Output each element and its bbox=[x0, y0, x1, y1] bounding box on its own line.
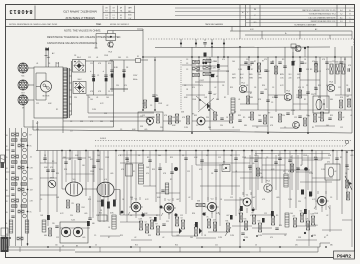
svg-text:.047: .047 bbox=[252, 197, 255, 199]
svg-text:220: 220 bbox=[160, 127, 163, 129]
svg-text:C5: C5 bbox=[283, 171, 285, 173]
svg-text:.01: .01 bbox=[326, 235, 328, 237]
svg-text:R24: R24 bbox=[175, 245, 178, 247]
svg-text:TR-8: TR-8 bbox=[108, 52, 112, 54]
svg-text:.005: .005 bbox=[350, 155, 353, 157]
svg-text:C12: C12 bbox=[218, 157, 221, 159]
svg-text:R31: R31 bbox=[330, 115, 333, 117]
svg-text:P94R2: P94R2 bbox=[337, 253, 351, 258]
svg-text:470: 470 bbox=[199, 169, 202, 171]
svg-text:.01: .01 bbox=[238, 99, 240, 101]
svg-text:C5: C5 bbox=[306, 85, 308, 87]
svg-text:470: 470 bbox=[192, 87, 195, 89]
svg-text:CAPACITANCE VALUES IN MICRO: CAPACITANCE VALUES IN MICROFARADS. bbox=[47, 42, 98, 45]
svg-text:C3: C3 bbox=[255, 245, 257, 247]
svg-text:2.2M: 2.2M bbox=[288, 199, 292, 201]
svg-text:470: 470 bbox=[298, 87, 301, 89]
svg-text:680: 680 bbox=[250, 97, 253, 99]
svg-text:.005: .005 bbox=[144, 129, 147, 131]
svg-text:C12: C12 bbox=[142, 115, 145, 117]
svg-text:R31: R31 bbox=[238, 115, 241, 117]
svg-text:C3: C3 bbox=[186, 59, 188, 61]
svg-text:100: 100 bbox=[106, 97, 109, 99]
svg-text:680: 680 bbox=[244, 125, 247, 127]
svg-text:TR-1: TR-1 bbox=[241, 83, 245, 85]
svg-text:R7: R7 bbox=[254, 61, 256, 63]
svg-text:560: 560 bbox=[148, 125, 151, 127]
svg-text:C21: C21 bbox=[36, 103, 39, 105]
svg-text:.02: .02 bbox=[326, 215, 328, 217]
svg-text:680: 680 bbox=[44, 235, 47, 237]
svg-text:R15: R15 bbox=[135, 245, 138, 247]
svg-text:680: 680 bbox=[92, 223, 95, 225]
svg-text:R7: R7 bbox=[223, 169, 225, 171]
svg-text:.005: .005 bbox=[254, 155, 257, 157]
svg-text:470: 470 bbox=[222, 59, 225, 61]
svg-text:C12: C12 bbox=[130, 197, 133, 199]
svg-text:560: 560 bbox=[318, 117, 321, 119]
svg-text:C5: C5 bbox=[326, 85, 328, 87]
svg-text:R7: R7 bbox=[324, 237, 326, 239]
svg-text:C3: C3 bbox=[108, 91, 110, 93]
svg-text:R31: R31 bbox=[318, 97, 321, 99]
svg-text:220: 220 bbox=[293, 216, 296, 218]
svg-text:C5: C5 bbox=[126, 57, 128, 59]
svg-text:.02: .02 bbox=[166, 105, 168, 107]
svg-text:560: 560 bbox=[306, 115, 309, 117]
svg-text:470: 470 bbox=[270, 237, 273, 239]
svg-text:R1: R1 bbox=[304, 99, 306, 101]
svg-text:R1: R1 bbox=[204, 215, 206, 217]
svg-text:C5: C5 bbox=[290, 157, 292, 159]
svg-text:100: 100 bbox=[258, 115, 261, 117]
svg-text:.01: .01 bbox=[96, 57, 98, 59]
svg-text:.02: .02 bbox=[214, 87, 216, 89]
svg-text:.02: .02 bbox=[30, 156, 32, 158]
svg-text:LOOP: LOOP bbox=[199, 80, 205, 82]
svg-text:C12: C12 bbox=[230, 197, 233, 199]
svg-text:100: 100 bbox=[55, 245, 58, 247]
svg-text:220: 220 bbox=[116, 85, 119, 87]
svg-text:R15: R15 bbox=[230, 87, 233, 89]
svg-text:.01: .01 bbox=[96, 97, 98, 99]
svg-text:C12: C12 bbox=[340, 127, 343, 129]
svg-text:R31: R31 bbox=[194, 115, 197, 117]
svg-text:R9: R9 bbox=[76, 246, 78, 248]
svg-text:470: 470 bbox=[36, 129, 39, 131]
svg-text:470: 470 bbox=[124, 85, 127, 87]
svg-text:100: 100 bbox=[252, 163, 255, 165]
svg-text:470: 470 bbox=[146, 173, 149, 175]
svg-text:R1: R1 bbox=[120, 213, 122, 215]
svg-text:C8: C8 bbox=[211, 173, 213, 175]
svg-text:SW-2: SW-2 bbox=[50, 178, 54, 180]
svg-text:R7: R7 bbox=[278, 155, 280, 157]
svg-text:C5: C5 bbox=[95, 245, 97, 247]
svg-text:C3: C3 bbox=[302, 87, 304, 89]
svg-text:V-2: V-2 bbox=[168, 200, 171, 202]
svg-text:C3: C3 bbox=[40, 199, 42, 201]
svg-text:560: 560 bbox=[326, 125, 329, 127]
svg-text:840813: 840813 bbox=[9, 8, 33, 14]
svg-text:220: 220 bbox=[52, 223, 55, 225]
svg-text:680: 680 bbox=[336, 62, 339, 64]
svg-text:C3: C3 bbox=[272, 87, 274, 89]
svg-text:TR-5: TR-5 bbox=[266, 181, 270, 183]
svg-text:.047: .047 bbox=[176, 199, 179, 201]
svg-text:100: 100 bbox=[88, 157, 91, 159]
svg-text:R7: R7 bbox=[108, 237, 110, 239]
svg-text:R15: R15 bbox=[152, 169, 155, 171]
svg-text:R7: R7 bbox=[250, 93, 252, 95]
svg-text:C12: C12 bbox=[180, 215, 183, 217]
svg-text:2.2M: 2.2M bbox=[244, 237, 248, 239]
svg-text:C5: C5 bbox=[284, 127, 286, 129]
svg-text:.047: .047 bbox=[260, 177, 263, 179]
svg-text:TR-3: TR-3 bbox=[329, 82, 333, 84]
svg-text:R15: R15 bbox=[88, 199, 91, 201]
svg-text:C8: C8 bbox=[108, 227, 110, 229]
svg-text:'65: '65 bbox=[120, 17, 122, 19]
svg-text:C21: C21 bbox=[187, 171, 190, 173]
svg-text:MODEL 2 TAPE W-R: MODEL 2 TAPE W-R bbox=[65, 16, 95, 20]
svg-text:R24: R24 bbox=[314, 157, 317, 159]
svg-text:.01: .01 bbox=[36, 63, 38, 65]
svg-text:MAGNETIC JAPAN LTD: MAGNETIC JAPAN LTD bbox=[63, 10, 97, 14]
svg-text:R9: R9 bbox=[147, 157, 149, 159]
svg-text:.047: .047 bbox=[30, 189, 33, 191]
svg-text:470: 470 bbox=[312, 61, 315, 63]
svg-text:.02: .02 bbox=[162, 237, 164, 239]
svg-text:C8: C8 bbox=[246, 85, 248, 87]
svg-text:C8: C8 bbox=[181, 218, 183, 220]
svg-text:680: 680 bbox=[248, 117, 251, 119]
svg-text:9-3: 9-3 bbox=[340, 21, 343, 23]
svg-text:R24: R24 bbox=[82, 207, 85, 209]
svg-text:680: 680 bbox=[216, 99, 219, 101]
svg-text:2.2M: 2.2M bbox=[99, 169, 103, 171]
svg-text:R15: R15 bbox=[120, 235, 123, 237]
svg-text:560: 560 bbox=[158, 155, 161, 157]
svg-text:C5: C5 bbox=[196, 125, 198, 127]
svg-text:C8: C8 bbox=[74, 55, 76, 57]
svg-text:560: 560 bbox=[118, 57, 121, 59]
svg-text:C5: C5 bbox=[94, 235, 96, 237]
svg-text:R7: R7 bbox=[234, 112, 236, 114]
svg-text:C8: C8 bbox=[88, 97, 90, 99]
svg-text:R9: R9 bbox=[150, 218, 152, 220]
svg-text:.047: .047 bbox=[346, 96, 349, 98]
svg-text:MODEL NO SERIES 2: MODEL NO SERIES 2 bbox=[110, 24, 129, 26]
svg-text:C8: C8 bbox=[70, 121, 72, 123]
svg-text:R15: R15 bbox=[244, 219, 247, 221]
svg-text:NOTE: THE VALUES IN OHMS.: NOTE: THE VALUES IN OHMS. bbox=[64, 29, 101, 33]
svg-text:C21: C21 bbox=[56, 63, 59, 65]
svg-text:.01: .01 bbox=[194, 61, 196, 63]
svg-text:C3: C3 bbox=[62, 246, 64, 248]
svg-text:.02: .02 bbox=[342, 117, 344, 119]
svg-text:B+: B+ bbox=[285, 33, 287, 35]
svg-text:.005: .005 bbox=[176, 235, 179, 237]
svg-text:7-2: 7-2 bbox=[340, 14, 343, 16]
svg-text:SP: SP bbox=[22, 107, 24, 109]
svg-text:.01: .01 bbox=[235, 171, 237, 173]
svg-text:C8: C8 bbox=[347, 169, 349, 171]
svg-text:C21: C21 bbox=[264, 213, 267, 215]
svg-text:R15: R15 bbox=[258, 221, 261, 223]
svg-text:R9: R9 bbox=[282, 59, 284, 61]
svg-text:EXT: EXT bbox=[21, 92, 24, 94]
svg-text:C3: C3 bbox=[120, 129, 122, 131]
svg-text:R9: R9 bbox=[268, 113, 270, 115]
svg-text:6-4: 6-4 bbox=[340, 10, 343, 12]
svg-text:C21: C21 bbox=[126, 159, 129, 161]
svg-text:.01: .01 bbox=[218, 69, 220, 71]
svg-text:60Hz: 60Hz bbox=[133, 79, 137, 81]
svg-text:R1: R1 bbox=[56, 109, 58, 111]
svg-text:R24: R24 bbox=[279, 225, 282, 227]
svg-text:2.2M: 2.2M bbox=[184, 127, 188, 129]
svg-text:R7: R7 bbox=[36, 123, 38, 125]
svg-text:T-201: T-201 bbox=[71, 220, 75, 222]
svg-text:R24: R24 bbox=[99, 213, 102, 215]
svg-text:V-6: V-6 bbox=[104, 179, 107, 181]
svg-text:2.2M: 2.2M bbox=[258, 235, 262, 237]
svg-text:C3: C3 bbox=[70, 131, 72, 133]
svg-text:C21: C21 bbox=[90, 63, 93, 65]
svg-text:MOTOR: MOTOR bbox=[43, 96, 50, 98]
svg-text:TRIO: TRIO bbox=[96, 24, 102, 26]
svg-text:SE-2: SE-2 bbox=[78, 79, 82, 81]
svg-text:.02: .02 bbox=[142, 103, 144, 105]
svg-text:R1: R1 bbox=[224, 97, 226, 99]
svg-text:R9: R9 bbox=[156, 215, 158, 217]
svg-text:SCHEMATIC DIAGRAM: SCHEMATIC DIAGRAM bbox=[294, 23, 316, 26]
svg-text:.02: .02 bbox=[334, 171, 336, 173]
svg-text:C1: C1 bbox=[97, 75, 99, 77]
svg-text:C8: C8 bbox=[284, 235, 286, 237]
svg-text:220: 220 bbox=[206, 117, 209, 119]
svg-text:8-2: 8-2 bbox=[120, 15, 122, 17]
svg-text:470: 470 bbox=[327, 162, 330, 164]
svg-text:2.2M: 2.2M bbox=[230, 235, 234, 237]
svg-text:220: 220 bbox=[96, 215, 99, 217]
svg-text:C8: C8 bbox=[300, 165, 302, 167]
svg-text:R31: R31 bbox=[318, 85, 321, 87]
svg-text:.02: .02 bbox=[196, 71, 198, 73]
svg-text:.005: .005 bbox=[84, 213, 87, 215]
svg-text:100: 100 bbox=[97, 155, 100, 157]
svg-text:BL: BL bbox=[6, 223, 8, 225]
svg-text:C8: C8 bbox=[256, 127, 258, 129]
svg-text:C114 .005 CHANGED SEE NOTE: C114 .005 CHANGED SEE NOTE bbox=[308, 16, 336, 19]
svg-text:470: 470 bbox=[295, 245, 298, 247]
svg-text:2.2M: 2.2M bbox=[97, 201, 101, 203]
svg-text:2.2M: 2.2M bbox=[309, 173, 313, 175]
svg-text:220: 220 bbox=[311, 94, 314, 96]
svg-text:C8: C8 bbox=[48, 63, 50, 65]
svg-text:C21: C21 bbox=[166, 221, 169, 223]
svg-text:VOLTAGE READINGS ADD TR-4: VOLTAGE READINGS ADD TR-4 bbox=[309, 13, 336, 16]
svg-text:2.2M: 2.2M bbox=[218, 237, 222, 239]
svg-text:470: 470 bbox=[264, 59, 267, 61]
svg-text:R7: R7 bbox=[251, 69, 253, 71]
svg-text:C8: C8 bbox=[222, 85, 224, 87]
svg-text:R7: R7 bbox=[156, 224, 158, 226]
svg-text:R24: R24 bbox=[340, 97, 343, 99]
svg-text:C21: C21 bbox=[338, 71, 341, 73]
svg-text:560: 560 bbox=[300, 211, 303, 213]
svg-text:R24: R24 bbox=[30, 178, 33, 180]
svg-text:C21: C21 bbox=[226, 71, 229, 73]
svg-text:2.2M: 2.2M bbox=[291, 110, 295, 112]
svg-text:.005: .005 bbox=[110, 173, 113, 175]
svg-text:WHT: WHT bbox=[232, 78, 236, 80]
svg-text:R1: R1 bbox=[272, 61, 274, 63]
svg-text:R15: R15 bbox=[170, 157, 173, 159]
svg-text:F1: F1 bbox=[137, 56, 139, 58]
svg-text:220: 220 bbox=[220, 125, 223, 127]
svg-text:.047: .047 bbox=[213, 94, 216, 96]
svg-text:560: 560 bbox=[190, 237, 193, 239]
svg-text:R1: R1 bbox=[344, 59, 346, 61]
svg-text:.047: .047 bbox=[213, 220, 216, 222]
svg-text:.005: .005 bbox=[264, 89, 267, 91]
svg-text:C8: C8 bbox=[138, 155, 140, 157]
svg-text:R24: R24 bbox=[64, 169, 67, 171]
svg-text:R31: R31 bbox=[226, 221, 229, 223]
svg-text:7-1: 7-1 bbox=[112, 15, 114, 17]
svg-text:680: 680 bbox=[330, 245, 333, 247]
svg-text:R1: R1 bbox=[133, 171, 135, 173]
svg-text:.005: .005 bbox=[276, 197, 279, 199]
svg-text:220: 220 bbox=[297, 169, 300, 171]
svg-text:680: 680 bbox=[152, 117, 155, 119]
svg-text:C3: C3 bbox=[150, 105, 152, 107]
svg-text:SHIELD: SHIELD bbox=[100, 138, 107, 140]
svg-text:6-3: 6-3 bbox=[105, 15, 107, 17]
svg-text:C3: C3 bbox=[145, 222, 147, 224]
svg-text:RESISTOR ADDED R118 1.2K: RESISTOR ADDED R118 1.2K bbox=[311, 20, 337, 23]
svg-text:'64: '64 bbox=[112, 17, 114, 19]
svg-text:C12: C12 bbox=[88, 57, 91, 59]
svg-text:220: 220 bbox=[70, 215, 73, 217]
svg-text:NOTES: RESISTANCE IN OHMS K=: NOTES: RESISTANCE IN OHMS K=1000 CAP. IN… bbox=[9, 23, 58, 26]
svg-text:C8: C8 bbox=[346, 85, 348, 87]
svg-text:R24: R24 bbox=[259, 173, 262, 175]
svg-text:.005: .005 bbox=[82, 237, 85, 239]
svg-text:'64: '64 bbox=[105, 17, 107, 19]
svg-text:2.2M: 2.2M bbox=[92, 109, 96, 111]
svg-text:R15: R15 bbox=[56, 173, 59, 175]
svg-text:680: 680 bbox=[330, 99, 333, 101]
svg-text:2.2M: 2.2M bbox=[238, 69, 242, 71]
svg-text:C21: C21 bbox=[246, 59, 249, 61]
svg-text:220: 220 bbox=[282, 115, 285, 117]
svg-text:C8: C8 bbox=[184, 85, 186, 87]
svg-text:560: 560 bbox=[208, 127, 211, 129]
svg-text:R7: R7 bbox=[30, 134, 32, 136]
svg-text:.02: .02 bbox=[188, 197, 190, 199]
svg-text:560: 560 bbox=[100, 121, 103, 123]
svg-text:R24: R24 bbox=[192, 213, 195, 215]
svg-text:PARTS NO CHANGED R201 330 TO: PARTS NO CHANGED R201 330 TO 470 bbox=[302, 9, 335, 12]
svg-text:R9: R9 bbox=[310, 69, 312, 71]
svg-text:V-3: V-3 bbox=[211, 199, 214, 201]
svg-text:.047: .047 bbox=[68, 159, 71, 161]
svg-text:.005: .005 bbox=[126, 161, 129, 163]
svg-text:1: 1 bbox=[247, 12, 248, 14]
svg-text:R9: R9 bbox=[276, 215, 278, 217]
svg-text:TAPE MECHANISM: TAPE MECHANISM bbox=[205, 23, 223, 26]
svg-text:R9: R9 bbox=[52, 161, 54, 163]
svg-text:R1: R1 bbox=[298, 125, 300, 127]
svg-text:C21: C21 bbox=[215, 245, 218, 247]
svg-text:R31: R31 bbox=[90, 159, 93, 161]
svg-text:470: 470 bbox=[200, 85, 203, 87]
svg-text:.01: .01 bbox=[232, 127, 234, 129]
svg-text:220: 220 bbox=[289, 78, 292, 80]
svg-text:470: 470 bbox=[50, 167, 53, 169]
svg-text:115V: 115V bbox=[133, 75, 138, 77]
svg-text:C8: C8 bbox=[130, 215, 132, 217]
svg-text:TR-2: TR-2 bbox=[286, 91, 290, 93]
svg-text:C3: C3 bbox=[266, 157, 268, 159]
svg-text:V-4: V-4 bbox=[246, 195, 249, 197]
svg-text:YEL: YEL bbox=[258, 74, 261, 76]
svg-text:C12: C12 bbox=[338, 87, 341, 89]
svg-text:R31: R31 bbox=[148, 235, 151, 237]
svg-text:R9: R9 bbox=[72, 203, 74, 205]
svg-text:100: 100 bbox=[290, 213, 293, 215]
svg-text:.02: .02 bbox=[134, 237, 136, 239]
svg-text:100: 100 bbox=[90, 99, 93, 101]
svg-text:.01: .01 bbox=[350, 115, 352, 117]
svg-text:220: 220 bbox=[74, 97, 77, 99]
svg-text:SE-1: SE-1 bbox=[77, 57, 81, 59]
svg-text:R9: R9 bbox=[340, 157, 342, 159]
svg-text:C12: C12 bbox=[318, 71, 321, 73]
svg-text:C8: C8 bbox=[254, 87, 256, 89]
svg-text:.047: .047 bbox=[226, 215, 229, 217]
svg-text:2.2M: 2.2M bbox=[321, 169, 325, 171]
svg-text:C21: C21 bbox=[294, 117, 297, 119]
svg-text:100: 100 bbox=[232, 61, 235, 63]
svg-text:R24: R24 bbox=[262, 85, 265, 87]
svg-text:R1: R1 bbox=[312, 127, 314, 129]
svg-text:C3: C3 bbox=[271, 102, 273, 104]
svg-text:R15: R15 bbox=[206, 59, 209, 61]
svg-text:C21: C21 bbox=[56, 237, 59, 239]
svg-text:C8: C8 bbox=[230, 155, 232, 157]
svg-text:C3: C3 bbox=[186, 69, 188, 71]
svg-text:R15: R15 bbox=[108, 63, 111, 65]
svg-text:8-1: 8-1 bbox=[340, 17, 343, 19]
svg-text:100: 100 bbox=[314, 87, 317, 89]
svg-text:560: 560 bbox=[63, 157, 66, 159]
svg-text:C21: C21 bbox=[332, 61, 335, 63]
svg-text:2.2M: 2.2M bbox=[312, 235, 316, 237]
svg-text:C3: C3 bbox=[182, 155, 184, 157]
svg-text:PL: PL bbox=[156, 95, 158, 97]
svg-text:220: 220 bbox=[298, 201, 301, 203]
svg-text:R9: R9 bbox=[243, 117, 245, 119]
svg-text:C3: C3 bbox=[186, 63, 188, 65]
svg-text:C3: C3 bbox=[206, 155, 208, 157]
svg-text:C3: C3 bbox=[330, 197, 332, 199]
svg-text:R31: R31 bbox=[249, 169, 252, 171]
